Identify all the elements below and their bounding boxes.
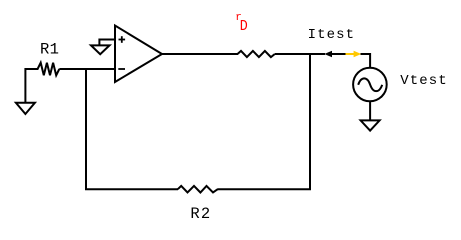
voltage source Vtest — [353, 68, 387, 102]
wire (feedback left vertical) — [85, 68, 87, 190]
svg-text:R1: R1 — [40, 40, 59, 58]
wire (node to Vtest top) — [361, 54, 371, 67]
current arrow (yellow, pointing right) — [346, 51, 362, 58]
svg-text:D: D — [240, 19, 248, 35]
wire (R1 to inverting input) — [59, 68, 115, 70]
wire (rD to node) — [275, 53, 325, 55]
wire (bottom feedback right) — [217, 188, 311, 190]
wire (non-inverting input hook) — [99, 40, 115, 46]
wire (R1 ground lead) — [24, 68, 26, 103]
wire (bottom feedback left) — [85, 188, 178, 190]
wire (Vtest ground lead) — [369, 102, 371, 121]
resistor R1 — [25, 63, 59, 76]
svg-text:Itest: Itest — [308, 27, 356, 43]
wire (op-amp output) — [162, 53, 238, 55]
label rD — [235, 12, 248, 35]
ground (below Vtest) — [361, 120, 380, 130]
ground (non-inverting input) — [91, 45, 110, 54]
resistor rD — [238, 51, 275, 57]
svg-text:Vtest: Vtest — [400, 73, 448, 89]
resistor R2 — [178, 186, 218, 193]
current arrow Itest (black, pointing left) — [324, 51, 345, 58]
op-amp U1 — [115, 26, 162, 83]
svg-text:R2: R2 — [190, 205, 211, 223]
ground (below R1) — [16, 103, 35, 114]
wire (node junction vertical) — [309, 54, 311, 190]
